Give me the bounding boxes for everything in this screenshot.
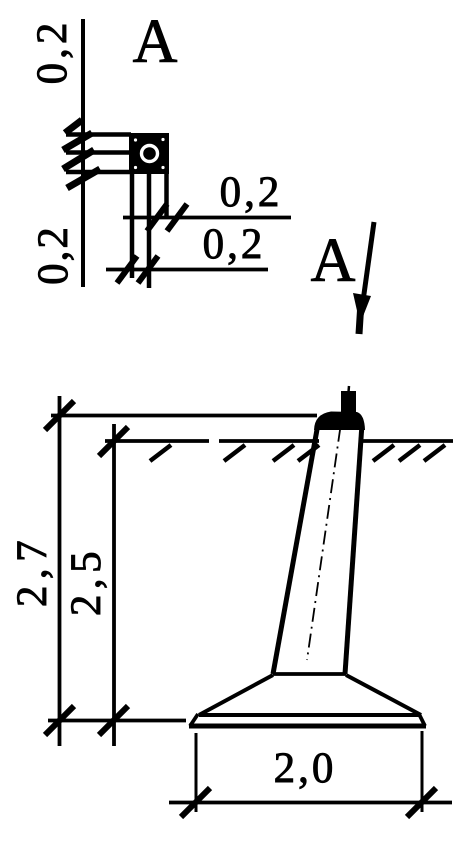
svg-text:A: A	[311, 227, 356, 295]
tick at 2,0 left	[181, 788, 210, 817]
base plate top line	[199, 713, 420, 717]
svg-text:2,5: 2,5	[63, 546, 110, 616]
svg-text:2,0: 2,0	[274, 745, 337, 792]
svg-text:0,2: 0,2	[203, 221, 266, 268]
label 0,2 lower	[203, 221, 266, 268]
leg line right (plan)	[164, 174, 169, 219]
dimension line 0,2 upper (plan)	[123, 216, 291, 220]
rail top line	[66, 132, 131, 137]
post top cap	[314, 412, 365, 431]
break slash 1 (rail left end)	[65, 120, 82, 133]
plan view section letter A	[133, 8, 178, 76]
dimension line 2,0	[169, 801, 452, 805]
extension line bottom-right (2,0)	[421, 731, 424, 812]
ground line	[105, 439, 453, 443]
rail middle line	[66, 150, 131, 155]
leg line left (plan)	[130, 174, 135, 278]
extension line bottom (to plate)	[48, 719, 186, 723]
base plate bottom line	[189, 724, 426, 729]
rail bottom line	[66, 170, 131, 175]
label 2,0	[274, 745, 337, 792]
leg line middle (plan)	[147, 174, 152, 288]
plan view label 0,2 (top-left, rotated)	[29, 19, 76, 85]
label 0,2 left (rotated)	[30, 225, 77, 285]
section letter A (at arrow)	[311, 227, 356, 295]
post cross-section (filled square with circle)	[129, 133, 169, 174]
base trapezoid right side	[346, 675, 421, 715]
label 0,2 upper	[220, 169, 283, 216]
svg-text:0,2: 0,2	[29, 19, 76, 85]
centre line above tenon	[347, 386, 350, 392]
tick slash pair on lower dimension	[117, 256, 158, 283]
tick at 2,5 bottom	[99, 706, 128, 735]
break slash 4	[67, 169, 100, 188]
label 2,5 (rotated)	[63, 546, 110, 616]
post bottom line	[273, 672, 346, 676]
section arrow	[353, 222, 374, 334]
post right edge	[345, 424, 362, 674]
extension line top of post	[51, 414, 317, 418]
dimension line 2,5 (vertical)	[112, 424, 116, 746]
post centre line (dash-dot)	[307, 402, 344, 660]
tick at 2,7 top	[45, 401, 74, 430]
label 2,7 (rotated)	[9, 534, 56, 607]
extension line vertical (plan, x=83)	[81, 19, 85, 287]
dimension line 2,7 (vertical)	[58, 396, 62, 746]
svg-text:A: A	[133, 8, 178, 76]
dimension line 0,2 lower (plan)	[106, 268, 268, 272]
extension line bottom-left (2,0)	[195, 733, 198, 812]
ground hatching	[150, 445, 445, 461]
svg-text:2,7: 2,7	[9, 534, 56, 607]
base plate right end	[419, 714, 425, 726]
base trapezoid left side	[199, 675, 273, 715]
break slash 3	[63, 150, 94, 169]
break slash 2	[63, 133, 92, 150]
base plate left end	[190, 714, 198, 726]
svg-text:0,2: 0,2	[30, 225, 77, 285]
post left edge	[273, 424, 318, 674]
post tenon	[341, 391, 356, 412]
tick at 2,5 top	[99, 427, 128, 456]
tick slash pair on upper dimension	[147, 204, 187, 231]
svg-text:0,2: 0,2	[220, 169, 283, 216]
tick at 2,0 right	[407, 788, 436, 817]
tick at 2,7 bottom	[45, 706, 74, 735]
